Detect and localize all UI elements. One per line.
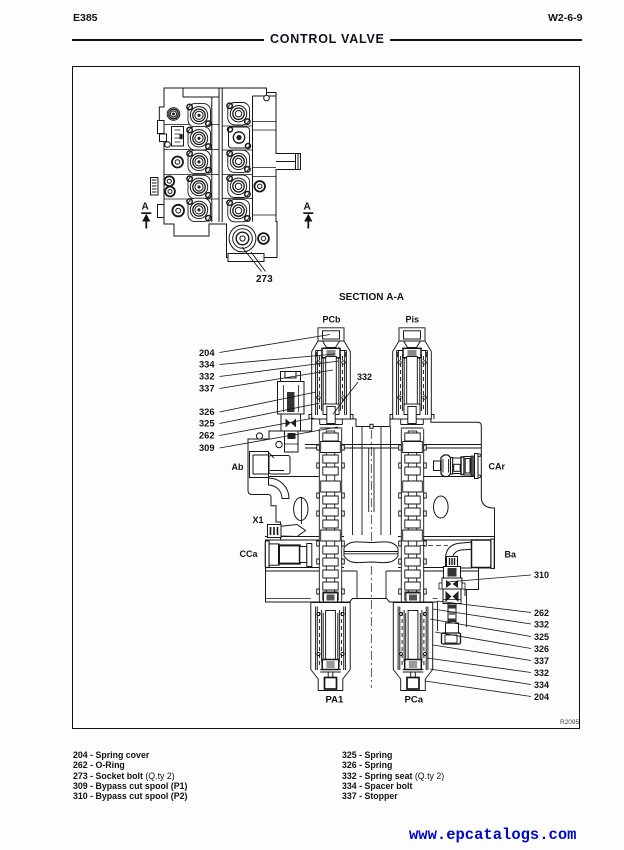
svg-text:Ba: Ba [505,550,517,560]
port Ab elbow [269,478,290,499]
plan small port a [172,157,183,168]
leader 334 right [430,669,531,685]
plan section lines right half [222,126,252,198]
spring cover tower PCa outline [393,603,432,691]
leader 204 left [220,335,331,353]
label 273 leaders [242,247,266,272]
PA1 sleeve walls [316,607,346,671]
port CAr [434,454,481,479]
gallery lines lower [265,537,495,541]
Pis sleeve groove seals [396,352,399,357]
relief valve P2 top stem [439,557,465,645]
PCa springs (dashed) [402,612,424,665]
svg-text:Ab: Ab [232,462,244,472]
watermark url [409,826,576,844]
PA1 plug [325,678,337,690]
body face lines [266,598,466,600]
spring cover tower PCb outline [312,328,351,419]
Pis springs (dashed) [401,356,424,411]
svg-text:273: 273 [256,274,273,285]
svg-text:309: 309 [199,443,215,453]
plan port boss L4 [187,175,211,198]
plan centre split line [219,88,222,222]
plan top screw [264,95,270,101]
centre mark top [370,424,373,428]
plan gauge boss top-left [167,108,180,121]
PCa plug [407,678,419,690]
leader 309 left [220,427,339,448]
plan view valve body outline [159,88,300,258]
svg-text:X1: X1 [253,515,264,525]
PCb o-rings [317,361,320,364]
leader 332 mid [333,382,358,414]
leader 310 right [447,575,531,582]
relief valve P1 o-ring [276,441,282,447]
spool P2 port nubs [399,445,427,594]
svg-text:PCa: PCa [405,695,424,706]
relief valve P1 spring [287,392,295,412]
plan flat boss rect [172,127,184,147]
svg-text:325: 325 [199,419,215,429]
plan end cover lines [253,122,277,216]
svg-text:334: 334 [534,680,549,690]
port Ab flange [250,452,269,478]
relief valve P2 flange [442,578,462,589]
relief valve P2 seat body [443,589,461,604]
svg-text:Pis: Pis [406,315,420,325]
svg-text:SECTION A-A: SECTION A-A [339,292,404,303]
plan port boss L5 [187,198,211,221]
plan inner top step [183,88,219,222]
plan port boss L1 [187,104,211,127]
svg-text:PCb: PCb [323,315,342,325]
svg-text:204: 204 [199,348,215,358]
PCa spring seat [405,660,422,670]
port Ba dashed line [420,545,448,547]
spool P1 body [326,431,334,602]
PCb spool rod [326,357,337,407]
leader 332 left [220,361,340,377]
oval window right [434,496,449,518]
spool P2 body [408,431,416,602]
leader 325 right [430,619,531,637]
gallery lines mid [268,476,481,478]
plan small port e [254,181,265,192]
PCa stem [411,672,416,678]
svg-text:332: 332 [199,372,215,382]
plan side port stub [276,154,298,170]
parts list left column [73,750,187,801]
relief valve P1 stem [285,431,299,452]
PA1 stem [328,672,333,678]
leader 337 left [220,370,334,389]
plan boss R2 square [228,127,251,149]
plan port boss L3 [187,150,211,173]
plan small port c [165,187,175,197]
svg-text:326: 326 [534,644,549,654]
centre verticals [353,427,391,598]
svg-text:CCa: CCa [240,549,259,559]
bore walls spool P1 [319,429,341,602]
svg-text:326: 326 [199,407,215,417]
svg-text:262: 262 [534,608,549,618]
plan port boss R4 [227,199,250,221]
PCa sleeve walls [398,607,428,671]
svg-text:A: A [304,202,311,213]
svg-text:R2095: R2095 [560,719,580,726]
plan left edge tab 3 [158,205,165,218]
svg-text:337: 337 [534,656,549,666]
spool P1 port nubs [317,445,345,594]
PA1 spring seat [322,660,339,670]
svg-text:332: 332 [534,620,549,630]
svg-text:A: A [142,202,149,213]
plan left edge tab 1 [158,121,165,134]
PCb springs (dashed) [320,356,343,411]
spring cover tower Pis outline [393,328,432,419]
plan port boss L2 [187,127,211,150]
PCa upper seat collar [406,593,420,602]
leader 262 left [220,418,315,436]
plan left edge tab 2 [151,178,159,196]
plan port boss R3 [227,175,250,197]
section centre line [370,430,372,688]
title rule right [390,39,582,41]
svg-text:262: 262 [199,431,215,441]
pilot passage line [301,497,303,524]
plan end-cover split [253,96,277,222]
plan small port b [164,176,174,186]
plan port boss R1 [227,103,250,125]
relief valve P1 mid [281,414,301,431]
section arrow A left [141,202,151,229]
leader 325 left [220,403,321,424]
leader 332 right [433,609,531,624]
plan port boss R2 [227,150,250,172]
relief valve P2 sleeve [446,623,459,633]
svg-text:334: 334 [199,360,215,370]
Pis spring seat [403,348,421,358]
plan section lines left half [164,125,219,200]
port Ba flange [472,539,495,569]
bore walls spool P2 [401,429,423,602]
spool P2 lands [405,433,420,600]
header right code [548,12,582,24]
port CCa [265,541,312,568]
PA1 springs (dashed) [320,612,342,665]
PA1 o-rings [317,612,320,615]
plan small port d [172,205,184,217]
svg-text:PA1: PA1 [326,695,344,706]
svg-text:337: 337 [199,384,215,394]
Pis inner sleeve [403,354,422,411]
svg-text:310: 310 [534,570,549,580]
parts list right column [342,750,444,801]
leader 334 left [220,354,336,365]
plan small bolt washer [165,142,171,148]
PCb sleeve groove seals [315,352,318,357]
section arrow A right [303,202,313,229]
plan flat boss dark pin [180,134,183,139]
spool P1 lands [323,433,338,600]
spool P2 collars [403,442,423,542]
relief valve P2 plug [442,633,461,644]
header left code [73,12,98,24]
Pis lower spring seat [404,404,420,415]
plan bottom plate [228,254,264,262]
main frame box [72,66,580,729]
port X1 [268,525,306,538]
PCb cap inner [323,331,340,339]
PCb spring seat [322,348,340,358]
leader 326 left [220,392,317,412]
svg-text:332: 332 [357,372,372,382]
PCb sleeve walls [316,351,347,416]
PA1 inner sleeve [322,610,340,662]
Pis cap inner [404,331,421,339]
plan bottom-right boss 273 [229,225,256,252]
leader 337 right [433,645,531,661]
Pis sleeve walls [397,351,428,416]
Pis o-rings [398,361,401,364]
socket bolt head [256,433,262,439]
PA1 upper seat collar [324,593,338,602]
relief valve P2 upper body [444,567,461,579]
port Ba elbow [446,542,472,568]
svg-text:CAr: CAr [489,462,506,472]
leader 332b right [427,658,531,673]
spring cover tower PA1 outline [311,603,350,691]
title [270,32,385,46]
svg-text:325: 325 [534,632,549,642]
PCb base flange [309,415,353,420]
relief valve P2 pocket [438,596,467,630]
relief valve P1 cap [276,372,304,453]
relief valve P2 stem [448,604,456,624]
title rule left [72,39,264,41]
PCa o-rings [399,612,402,615]
PCb lower spring seat [323,404,339,415]
plan bottom-right small port [258,233,269,244]
Pis base flange [390,415,434,420]
oval window left [294,498,308,521]
PCa spool rod [408,611,418,660]
PCa inner sleeve [404,610,422,662]
PCb inner sleeve [322,354,341,411]
Pis spool rod [407,357,418,407]
plan small square port [160,134,167,142]
PA1 spool rod [326,611,336,660]
gallery lines bottom [265,568,479,572]
gallery lines upper [305,445,481,449]
main valve body outline [248,419,495,602]
svg-text:204: 204 [534,692,549,702]
spool P1 collars [321,442,341,542]
leader 204 right [425,681,531,697]
leader 262 right [437,601,531,613]
flow passage bulge [344,542,398,563]
svg-text:332: 332 [534,668,549,678]
leader 326 right [435,632,531,649]
